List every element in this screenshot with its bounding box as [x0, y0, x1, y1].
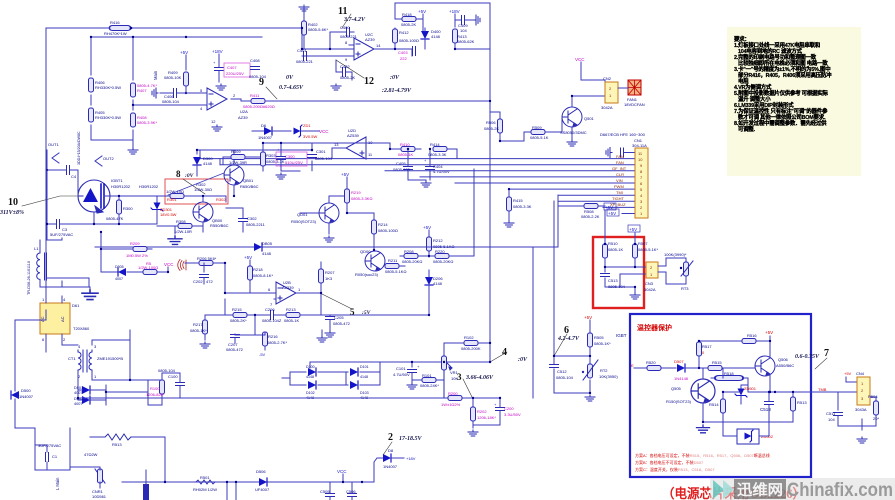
svg-text:3.66-4.06V: 3.66-4.06V: [465, 375, 494, 381]
wire long verticals: [460, 169, 554, 398]
zener ZD501: [735, 385, 757, 404]
VCC label: [318, 129, 329, 134]
svg-text:VCC: VCC: [575, 57, 585, 62]
transistor Q501: [552, 96, 605, 140]
svg-text:11: 11: [338, 6, 347, 17]
svg-text:部分R416，R405，R406须采用高压防冲: 部分R416，R405，R406须采用高压防冲: [738, 71, 832, 79]
VCC flag CN2: [575, 57, 605, 88]
capacitor C202: [193, 275, 213, 285]
svg-text:0805-2K: 0805-2K: [340, 75, 355, 80]
resistor R408: [131, 113, 158, 127]
svg-text::0V: :0V: [185, 173, 195, 179]
svg-text:R218: R218: [253, 267, 263, 272]
potentiometer VR1: [442, 356, 459, 398]
resistor R516: [742, 333, 770, 355]
svg-text:20*: 20*: [873, 416, 879, 421]
VCC flag bottom: [337, 469, 347, 474]
svg-text:0805-5.1K*: 0805-5.1K*: [638, 247, 658, 252]
svg-text:R550/B6C: R550/B6C: [210, 223, 229, 228]
diode DB05 on bus: [95, 195, 558, 256]
svg-text:0805-2.2K: 0805-2.2K: [581, 214, 600, 219]
svg-text:Q501: Q501: [584, 116, 595, 121]
svg-text:数才可调 其他一律依照公司BOM要求.: 数才可调 其他一律依照公司BOM要求.: [738, 113, 826, 121]
resistor R211: [385, 258, 406, 274]
svg-text:1/2W-30Ω: 1/2W-30Ω: [194, 187, 212, 192]
resistor R506: [484, 112, 524, 141]
top frame wire right section: [395, 3, 490, 362]
resistor R518: [711, 371, 748, 392]
resistor R217: [190, 315, 225, 340]
svg-text:IGBT1: IGBT1: [111, 178, 123, 183]
diag wire: [168, 173, 224, 195]
svg-text:14: 14: [376, 43, 381, 48]
svg-text:C206: C206: [265, 307, 275, 312]
svg-text:方案C：温度开关，仅装R513、C518、D507: 方案C：温度开关，仅装R513、C518、D507: [635, 466, 715, 472]
svg-text:6.LM339采用DIP封装形式: 6.LM339采用DIP封装形式: [734, 101, 794, 109]
resistor R414: [428, 142, 457, 158]
transistor QB00: [193, 196, 229, 232]
svg-text:+5V: +5V: [629, 227, 637, 232]
svg-text:ZME191500*B: ZME191500*B: [97, 356, 123, 361]
svg-text:D61: D61: [72, 303, 80, 308]
resistor R303: [261, 152, 285, 166]
svg-text:1/2W-100Ω: 1/2W-100Ω: [138, 265, 158, 270]
svg-text:0805-5.1K: 0805-5.1K: [530, 135, 549, 140]
svg-text:+5V: +5V: [180, 50, 188, 55]
ground below C101: [407, 383, 417, 389]
svg-text:8.如开发过程中需调整参数．需先经过供: 8.如开发过程中需调整参数．需先经过供: [734, 119, 827, 127]
svg-text:D501: D501: [74, 386, 83, 390]
capacitor C401: [296, 48, 314, 64]
transistor QD00: [355, 249, 385, 277]
ground right of C409: [474, 15, 480, 25]
svg-text:RH330K*0.5W: RH330K*0.5W: [95, 115, 121, 120]
node 8 annotation: [176, 169, 205, 194]
svg-text:0805-3.3K: 0805-3.3K: [428, 152, 447, 157]
wire mains left column: [15, 399, 70, 470]
svg-text:0805-1K: 0805-1K: [398, 152, 413, 157]
svg-text:Q505: Q505: [671, 386, 682, 391]
ground below QD01: [324, 236, 334, 242]
svg-text:0.7-4.65V: 0.7-4.65V: [279, 85, 304, 91]
wire CT1 connections: [62, 330, 130, 385]
diode D100: [306, 365, 316, 379]
resistor R505: [588, 333, 612, 356]
svg-text:17-18.5V: 17-18.5V: [399, 436, 422, 442]
transistor Q505: [666, 368, 715, 422]
svg-text:4148: 4148: [431, 34, 441, 39]
svg-text:R412: R412: [399, 30, 409, 35]
fan FAN1: [618, 80, 645, 107]
ground below U2A: [212, 125, 222, 131]
svg-text:0805-62K: 0805-62K: [457, 39, 475, 44]
svg-text:3.3U/50V: 3.3U/50V: [504, 412, 521, 417]
transformer CT1: [68, 344, 123, 379]
resistor R302 label: [194, 182, 226, 202]
resistor R207: [319, 262, 336, 293]
svg-text:R309: R309: [231, 149, 241, 154]
svg-text:方案B：各档电压不可设定，不装D507: 方案B：各档电压不可设定，不装D507: [635, 459, 704, 465]
svg-text:104: 104: [460, 28, 467, 33]
svg-text:10D561: 10D561: [92, 494, 107, 499]
op-amp U2D (mirrored): [332, 128, 373, 159]
+5V label pin1: [607, 209, 619, 216]
svg-text:+5V: +5V: [605, 205, 613, 210]
svg-text:C405: C405: [396, 161, 406, 166]
svg-text:R209: R209: [130, 241, 140, 246]
svg-text:0805-472: 0805-472: [226, 347, 244, 352]
wire igbt emitter bus: [47, 150, 157, 240]
resistor R200: [441, 391, 462, 407]
svg-text:ZD501: ZD501: [744, 386, 757, 391]
svg-text:5: 5: [350, 307, 355, 317]
svg-text:+5V: +5V: [418, 9, 426, 14]
capacitor C101: [393, 364, 420, 382]
IGBT IGBT1: [78, 178, 168, 224]
svg-text:L Main: L Main: [55, 477, 60, 490]
svg-text:R202: R202: [477, 409, 487, 414]
resistor R515: [703, 360, 755, 371]
capacitor C1: [38, 443, 61, 470]
ground below C402: [331, 84, 341, 90]
svg-text:R510: R510: [608, 241, 618, 246]
svg-text:R517: R517: [702, 344, 712, 349]
capacitor C511: [826, 411, 862, 426]
svg-text:0805-5.1KΩ: 0805-5.1KΩ: [385, 269, 406, 274]
svg-text:0805-200K: 0805-200K: [461, 346, 481, 351]
capacitor+ground pin11: [606, 148, 635, 158]
svg-text:温控器保护: 温控器保护: [637, 323, 672, 332]
svg-text:7.为保证温控性 只有标注"可调"的器件参: 7.为保证温控性 只有标注"可调"的器件参: [734, 107, 828, 115]
svg-text:R507: R507: [638, 241, 648, 246]
svg-text:0805-3.3K: 0805-3.3K: [513, 204, 532, 209]
red highlight box (R510/R507/C513 region): [593, 237, 644, 308]
svg-text:R301: R301: [167, 197, 177, 202]
svg-text:D8: D8: [388, 448, 394, 453]
svg-text:0805-2K: 0805-2K: [401, 22, 416, 27]
svg-text::5V: :5V: [362, 310, 372, 316]
svg-text:C513: C513: [608, 278, 618, 283]
svg-text:7: 7: [824, 348, 829, 359]
svg-text:+5V: +5V: [341, 172, 349, 177]
svg-text:0805-104: 0805-104: [158, 368, 176, 373]
capacitor C407 (highlight): [213, 54, 250, 90]
resistor R415: [507, 188, 532, 220]
svg-text:4148: 4148: [306, 375, 314, 379]
resistor R508: [558, 195, 605, 219]
svg-text:472: 472: [206, 279, 213, 284]
wire bus y362: [310, 355, 490, 368]
watermark: [710, 478, 895, 500]
svg-text:R515: R515: [712, 360, 722, 365]
resistor R301 red box: [157, 189, 214, 202]
svg-text:+5V: +5V: [584, 315, 592, 320]
transistor QD01: [291, 196, 347, 234]
svg-text:0805-104Z: 0805-104Z: [262, 318, 282, 323]
resistor R209: [101, 241, 152, 258]
svg-text:1N4007: 1N4007: [19, 394, 34, 399]
+5V flag right of R508: [604, 203, 616, 210]
svg-text:AZ39: AZ39: [365, 37, 375, 42]
svg-text:R208: R208: [404, 249, 414, 254]
svg-text:R414: R414: [430, 142, 440, 147]
resistor R5: [138, 261, 158, 275]
capacitor C513: [601, 274, 626, 290]
svg-text:R518: R518: [724, 371, 734, 376]
ground below C404: [421, 181, 431, 187]
svg-text:3.卡"一"号的精度为±1%,不明的为5%.图中: 3.卡"一"号的精度为±1%,不明的为5%.图中: [734, 65, 830, 73]
svg-text:E: E: [631, 363, 634, 368]
svg-text:4: 4: [502, 347, 507, 358]
bridge rect wires: [282, 362, 380, 385]
svg-text:VIN: VIN: [616, 178, 623, 183]
svg-text:4.VR为侧调方式: 4.VR为侧调方式: [734, 83, 772, 91]
resistor R513b: [791, 392, 808, 422]
ground below Q501: [567, 140, 577, 146]
capacitor C403: [398, 47, 420, 62]
svg-text:0805-1K*: 0805-1K*: [594, 341, 611, 346]
svg-text:R418: R418: [402, 12, 412, 17]
capacitor C406: [152, 88, 205, 104]
svg-text:1N4007: 1N4007: [258, 135, 273, 140]
svg-text:1.灯板接口处线一采用47K电阻串联和: 1.灯板接口处线一采用47K电阻串联和: [734, 41, 820, 49]
ground below: [585, 395, 595, 401]
svg-text:D102: D102: [306, 391, 315, 395]
svg-text:R217: R217: [193, 322, 203, 327]
svg-text:C402: C402: [340, 64, 350, 69]
op-amp U2B: [225, 280, 320, 307]
svg-text:4.7U/50V: 4.7U/50V: [433, 169, 450, 174]
resistor R507: [633, 241, 659, 258]
svg-text:AC: AC: [60, 316, 65, 322]
resistor R411: [241, 93, 302, 109]
svg-text:QD01: QD01: [297, 212, 308, 217]
svg-text:0805-1K*: 0805-1K*: [190, 328, 207, 333]
capacitor C409: [455, 16, 474, 34]
svg-text:0805-20KΩ: 0805-20KΩ: [402, 259, 422, 264]
ground mid: [82, 290, 98, 300]
junction: [130, 27, 133, 30]
diode D8: [383, 448, 416, 469]
resistor R202: [471, 398, 497, 428]
svg-text:4148: 4148: [433, 281, 443, 286]
svg-text:C400: C400: [340, 25, 350, 30]
svg-text:CN3: CN3: [645, 281, 654, 286]
svg-text:Q506: Q506: [778, 357, 789, 362]
svg-text:0805-5.6K*: 0805-5.6K*: [308, 27, 328, 32]
svg-text:VCC: VCC: [319, 129, 329, 134]
svg-text:R050(SOT23): R050(SOT23): [291, 219, 317, 224]
wire junction row: [554, 356, 590, 393]
node 2 annotation: [383, 432, 422, 455]
capacitor C404 polarized: [424, 149, 450, 180]
svg-text:RH02M 1/2W: RH02M 1/2W: [193, 487, 217, 492]
wire secondary bus: [130, 330, 180, 392]
svg-text:C300: C300: [285, 154, 295, 159]
svg-text:L1: L1: [34, 246, 39, 251]
svg-text:R214: R214: [378, 222, 388, 227]
ground below R415: [504, 221, 514, 227]
resistor R208: [400, 249, 429, 264]
wires collector row: [703, 368, 811, 422]
node 5 annotation: [320, 293, 372, 317]
zigzag resistor R501: [193, 475, 237, 500]
resistor R520: [634, 360, 676, 371]
capacitor C402: [336, 60, 355, 80]
capacitor C408: [249, 58, 267, 79]
capacitor C3: [47, 220, 94, 238]
resistor R216: [235, 332, 287, 350]
svg-text:2.完整的印刷电路号功和整理图一致: 2.完整的印刷电路号功和整理图一致: [734, 53, 817, 61]
red highlight box (R301/R302 region): [165, 179, 228, 204]
diode D500: [11, 310, 46, 428]
ground below R202: [468, 430, 478, 436]
svg-text:304-11A: 304-11A: [632, 143, 647, 148]
svg-text:R509: R509: [532, 125, 542, 130]
svg-text:3: 3: [457, 372, 462, 382]
resistor R510: [603, 241, 624, 258]
capacitor C205: [321, 315, 351, 330]
op-amp U2A: [200, 88, 248, 124]
svg-text:C505: C505: [320, 489, 330, 494]
svg-text:C518: C518: [760, 407, 771, 412]
svg-text:OUT1: OUT1: [48, 142, 59, 147]
svg-text:QB01: QB01: [243, 178, 254, 183]
svg-text:3UF/275VAC: 3UF/275VAC: [38, 443, 61, 448]
svg-text:D506: D506: [256, 469, 266, 474]
svg-text:C1: C1: [52, 454, 58, 459]
svg-text:0805-8.1K*: 0805-8.1K*: [253, 273, 273, 278]
capacitor C207: [226, 334, 244, 352]
svg-text:R300: R300: [123, 206, 133, 211]
capacitor C518: [760, 392, 774, 422]
svg-text:R410: R410: [400, 142, 410, 147]
wire top bus: [46, 28, 302, 310]
svg-text:C506: C506: [346, 489, 356, 494]
node 10 annotation: [0, 196, 78, 216]
node 12 annotation: [336, 60, 412, 94]
svg-text:温升 调整大小: 温升 调整大小: [738, 95, 771, 103]
svg-text:R220: R220: [435, 249, 445, 254]
svg-text:C205: C205: [334, 315, 344, 320]
svg-text:0805-1K: 0805-1K: [608, 247, 623, 252]
capacitor C400: [330, 25, 358, 39]
svg-text::2.81-4.79V: :2.81-4.79V: [382, 88, 412, 94]
svg-text:UF4007: UF4007: [255, 487, 270, 492]
svg-text:C100: C100: [168, 374, 178, 379]
EMI ground red: [178, 260, 186, 271]
svg-text:C302: C302: [247, 216, 257, 221]
node 11 annotation: [338, 6, 366, 28]
svg-text:R416: R416: [110, 20, 120, 25]
svg-text:0805-10K: 0805-10K: [164, 75, 182, 80]
svg-text:-5V: -5V: [259, 352, 266, 357]
svg-text:10: 10: [638, 157, 643, 162]
svg-text:3042A: 3042A: [601, 105, 613, 110]
svg-text:A550/B6C: A550/B6C: [776, 363, 794, 368]
diode D102: [306, 381, 316, 400]
svg-text:要求：: 要求：: [734, 35, 750, 43]
svg-text:FAN: FAN: [616, 154, 624, 159]
svg-text:4148: 4148: [262, 251, 272, 256]
svg-text:C202: C202: [193, 279, 203, 284]
svg-text:D6: D6: [261, 123, 267, 128]
svg-text:R506: R506: [486, 120, 496, 125]
wire long bus y101: [272, 100, 489, 102]
capacitor C206: [255, 307, 283, 323]
svg-text:0805-104: 0805-104: [162, 99, 180, 104]
diode D101: [350, 365, 369, 379]
svg-text:R211: R211: [388, 258, 398, 263]
svg-text:4.7U/50V: 4.7U/50V: [393, 372, 410, 377]
svg-text:R308: R308: [176, 219, 186, 224]
svg-text:+18V: +18V: [212, 49, 223, 54]
svg-text:R411: R411: [250, 93, 260, 98]
svg-text:4007: 4007: [115, 277, 123, 281]
svg-text:0805-24K*: 0805-24K*: [420, 383, 439, 388]
OUT1 label: [48, 142, 59, 163]
svg-text:R302: R302: [216, 197, 226, 202]
zigzag resistor R513: [84, 434, 165, 482]
svg-text:R213: R213: [286, 307, 296, 312]
resistor R517: [697, 341, 743, 369]
diode D507: [674, 359, 703, 381]
svg-text:D103: D103: [360, 391, 369, 395]
svg-text:R514: R514: [709, 402, 719, 407]
svg-text:510U/25V: 510U/25V: [285, 160, 303, 165]
diode D300: [193, 156, 213, 176]
svg-text:C511: C511: [826, 411, 836, 416]
capacitor C300 highlighted: [276, 143, 307, 171]
svg-text:R505: R505: [594, 335, 604, 340]
svg-text:ZD1: ZD1: [303, 123, 311, 128]
svg-text:DB05: DB05: [262, 241, 273, 246]
resistor R412: [393, 29, 419, 43]
wire bus y398: [78, 385, 500, 398]
svg-text:C512: C512: [557, 369, 567, 374]
svg-text:0805-20KΩ: 0805-20KΩ: [433, 259, 453, 264]
svg-text:220U/25V: 220U/25V: [226, 71, 244, 76]
capacitors C505 C506: [320, 482, 357, 500]
svg-text:0805-2K: 0805-2K: [484, 126, 499, 131]
wire to U2C minus: [302, 28, 354, 56]
svg-text:U2A: U2A: [240, 109, 248, 114]
resistor R212: [423, 225, 454, 257]
svg-text:3043A: 3043A: [855, 407, 867, 412]
node 9 annotation: [259, 75, 304, 99]
svg-text:2: 2: [388, 432, 393, 443]
resistor R219: [341, 172, 372, 213]
svg-text:1K3: 1K3: [325, 276, 333, 281]
svg-text:R513: R513: [797, 400, 807, 405]
OUT2 label: [95, 156, 114, 166]
resistor R218: [244, 255, 273, 287]
ground below C205: [325, 331, 335, 337]
svg-text:VCC: VCC: [337, 469, 347, 474]
wire red box net: [605, 258, 646, 292]
diode D6: [252, 123, 291, 140]
svg-text:AZ39: AZ39: [238, 115, 248, 120]
svg-text:12: 12: [211, 119, 216, 124]
inductor L1: [34, 246, 47, 280]
connector CN2: [601, 76, 618, 110]
ground in box: [697, 425, 710, 433]
thermistor RT2: [582, 360, 619, 380]
svg-text:4148: 4148: [360, 375, 368, 379]
junction dots: [394, 48, 396, 50]
capacitor C4: [46, 166, 78, 180]
blue protection box: [630, 314, 811, 477]
